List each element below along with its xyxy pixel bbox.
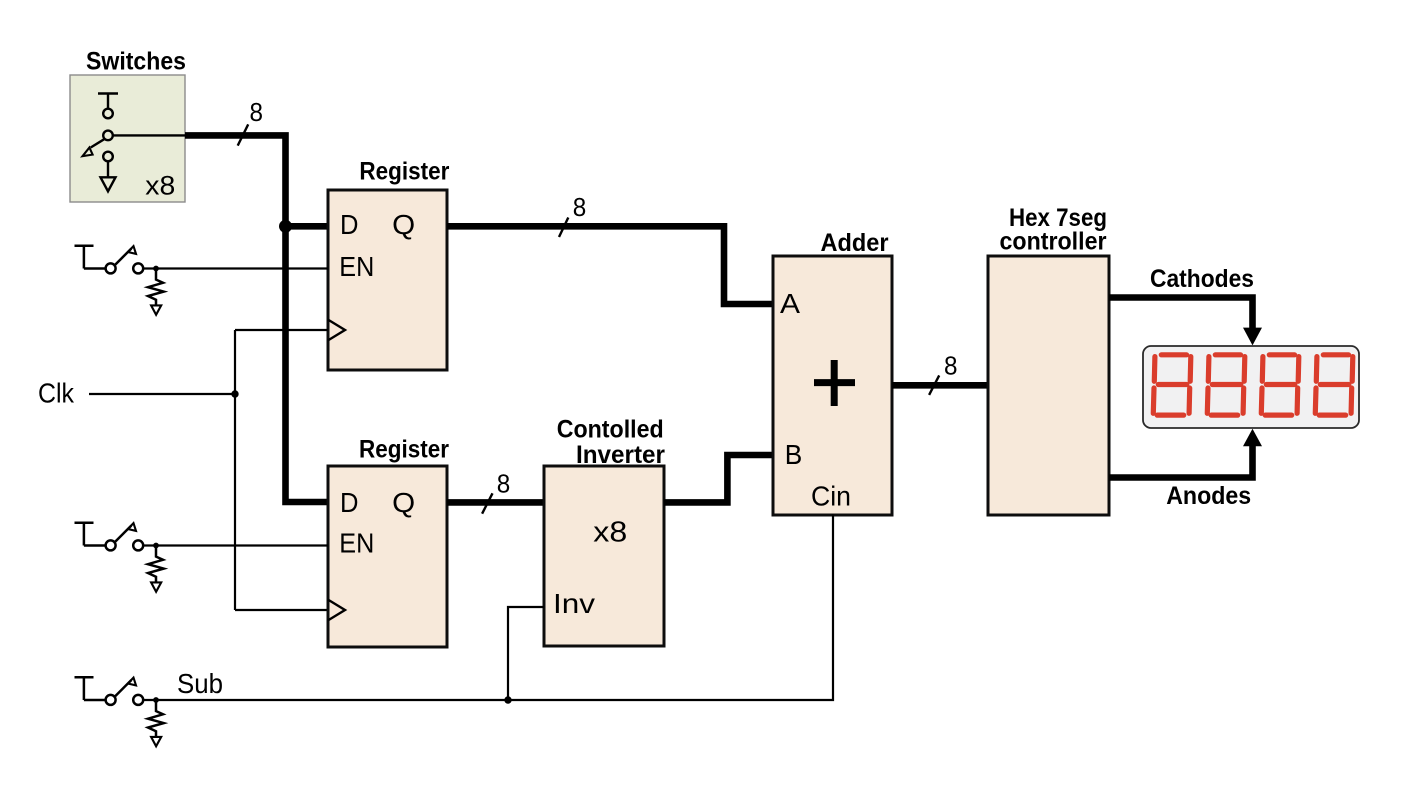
svg-text:Contolled: Contolled	[557, 416, 664, 444]
Anodes arrowhead	[1243, 429, 1262, 447]
wire: pushbutton 1 to register 1 EN	[143, 267, 328, 269]
bus slash (sum bus)	[929, 375, 939, 395]
svg-text:EN: EN	[339, 528, 374, 559]
junction on Sub net at Inv branch	[504, 696, 511, 703]
7-segment display module	[1143, 346, 1359, 428]
pushbutton switch (register 1 EN)	[75, 246, 144, 274]
svg-text:Register: Register	[359, 157, 449, 185]
svg-text:8: 8	[249, 97, 263, 127]
svg-text:x8: x8	[593, 517, 627, 549]
hex 7seg controller block	[988, 204, 1109, 515]
svg-text:Inv: Inv	[553, 588, 595, 619]
adder block	[773, 229, 892, 515]
pushbutton switch (register 2 EN)	[75, 523, 144, 551]
clock wedge (register 1)	[328, 320, 345, 341]
junction on Clk net	[231, 390, 238, 397]
svg-text:x8: x8	[145, 171, 175, 201]
wire: Clk horizontal	[89, 393, 235, 395]
ground arrow (register 2 EN pulldown)	[151, 582, 161, 591]
svg-text:Clk: Clk	[38, 378, 75, 409]
svg-text:controller: controller	[1000, 228, 1107, 256]
pull-down resistor (register 2 EN)	[148, 546, 164, 583]
junction on bus at register 1 D	[279, 220, 292, 233]
register 1 block	[328, 157, 450, 370]
Cathodes arrowhead	[1243, 328, 1262, 346]
svg-text:Cin: Cin	[811, 481, 851, 512]
wire: Clk branch to register 2 clock	[235, 609, 328, 611]
wire: Inv pin to Sub net	[508, 607, 544, 700]
svg-text:Register: Register	[359, 436, 449, 464]
svg-text:8: 8	[944, 351, 958, 381]
controlled inverter block	[544, 416, 665, 646]
bus wire: tee to register 1 D input	[286, 223, 329, 230]
bus wire: register 1 Q to adder A (thick)	[447, 226, 773, 304]
wire: pushbutton 2 to register 2 EN	[143, 544, 328, 546]
svg-text:Inverter: Inverter	[576, 441, 665, 469]
svg-text:8: 8	[573, 192, 587, 222]
ground arrow (Sub pulldown)	[151, 737, 161, 746]
svg-text:Adder: Adder	[821, 229, 889, 257]
svg-text:Q: Q	[392, 209, 415, 240]
wire: switch output lead	[113, 134, 185, 136]
bus slash (switches bus)	[238, 124, 249, 145]
svg-text:D: D	[340, 209, 359, 240]
junction at pull-down resistor 1	[153, 266, 159, 272]
Cathodes wire (thick)	[1109, 298, 1253, 330]
Anodes wire (thick)	[1109, 445, 1253, 478]
svg-text:EN: EN	[339, 251, 374, 282]
svg-text:Switches: Switches	[86, 48, 186, 76]
junction at pull-down resistor (Sub)	[153, 697, 159, 703]
junction at pull-down resistor 2	[153, 543, 159, 549]
svg-text:A: A	[780, 288, 800, 319]
wire: Sub net to adder Cin	[143, 515, 833, 701]
bus wire: controlled inverter to adder B (thick)	[664, 455, 773, 502]
7seg digit 2	[1207, 355, 1245, 415]
svg-text:8: 8	[497, 469, 511, 499]
wire: Clk vertical trunk	[234, 330, 236, 610]
7seg digit 3	[1261, 355, 1299, 415]
switch bank box (Switches)	[70, 48, 186, 203]
pull-down resistor (register 1 EN)	[148, 269, 164, 306]
plus symbol (adder)	[814, 360, 855, 406]
clock wedge (register 2)	[328, 600, 345, 621]
wire: Clk branch to register 1 clock	[235, 329, 328, 331]
svg-text:D: D	[340, 487, 359, 518]
svg-text:Cathodes: Cathodes	[1150, 265, 1254, 293]
bus slash (register 1 Q)	[559, 218, 568, 238]
ground arrow of SPDT switch	[101, 177, 116, 191]
7seg digit 4	[1315, 355, 1353, 415]
bus slash (register 2 Q)	[482, 493, 492, 513]
bus wire: adder sum to hex controller (thick)	[892, 382, 988, 389]
ground arrow (register 1 EN pulldown)	[151, 305, 161, 314]
svg-text:Sub: Sub	[177, 668, 223, 699]
bus wire: switches to register D inputs (thick)	[185, 135, 328, 502]
7seg digit 1	[1153, 355, 1191, 415]
svg-text:Q: Q	[392, 487, 415, 518]
pushbutton switch (Sub)	[75, 677, 144, 705]
SPDT switch symbol inside Switches box	[83, 94, 119, 178]
svg-text:B: B	[785, 439, 803, 470]
pull-down resistor (Sub)	[148, 700, 164, 737]
bus wire: register 2 Q to controlled inverter (thick)	[447, 499, 544, 506]
register 2 block	[328, 436, 449, 648]
svg-text:Anodes: Anodes	[1166, 482, 1251, 510]
